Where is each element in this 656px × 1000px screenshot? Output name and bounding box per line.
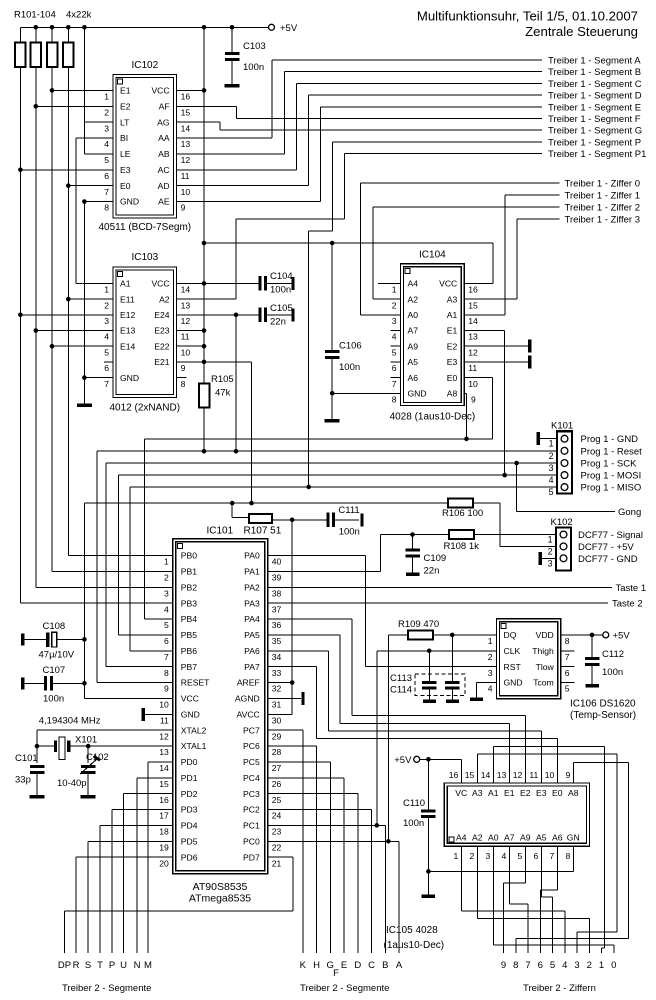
svg-text:32: 32 xyxy=(272,684,282,694)
svg-text:C105: C105 xyxy=(270,303,293,314)
svg-text:Treiber 1 - Segment A: Treiber 1 - Segment A xyxy=(548,56,641,67)
wire column R102 middle xyxy=(35,106,37,330)
svg-text:VCC: VCC xyxy=(151,279,169,289)
svg-text:VCC: VCC xyxy=(181,694,199,704)
wire IC103 pin2 E11 from column R104 xyxy=(68,298,113,300)
svg-text:Treiber 1 - Segment C: Treiber 1 - Segment C xyxy=(548,79,642,90)
svg-text:11: 11 xyxy=(529,770,538,780)
svg-text:34: 34 xyxy=(272,652,282,662)
svg-text:R106 100: R106 100 xyxy=(442,508,483,519)
dashed box C113 C114 xyxy=(415,674,465,696)
svg-text:A1: A1 xyxy=(120,279,131,289)
svg-text:AD: AD xyxy=(158,181,170,191)
svg-text:6: 6 xyxy=(104,363,109,373)
svg-text:E0: E0 xyxy=(552,788,563,798)
svg-text:C103: C103 xyxy=(243,41,266,52)
svg-text:C: C xyxy=(368,960,375,971)
svg-text:A6: A6 xyxy=(552,832,563,842)
wire PB2 from column R102 xyxy=(36,586,173,588)
svg-text:22n: 22n xyxy=(270,317,286,328)
svg-text:6: 6 xyxy=(533,851,538,861)
svg-text:PB2: PB2 xyxy=(181,582,197,592)
svg-text:AG: AG xyxy=(157,117,170,127)
svg-text:3: 3 xyxy=(485,851,490,861)
wire PA2 Taste 1 xyxy=(268,586,612,588)
wire IC102 pin16 VCC xyxy=(177,89,204,91)
svg-text:2: 2 xyxy=(392,300,397,310)
svg-text:A9: A9 xyxy=(520,832,531,842)
svg-text:25: 25 xyxy=(272,795,282,805)
capacitor C108 47u xyxy=(21,633,24,645)
wire IC105 A9 output to Ziffer 9 xyxy=(524,846,526,883)
svg-text:Zentrale Steuerung: Zentrale Steuerung xyxy=(525,24,638,39)
wire PB1 from column R103 xyxy=(52,570,173,572)
svg-text:1: 1 xyxy=(549,439,554,449)
wire IC105 A7 output to Ziffer 7 xyxy=(508,846,510,904)
svg-text:R105: R105 xyxy=(211,374,234,385)
svg-text:100n: 100n xyxy=(339,527,360,538)
svg-text:GND: GND xyxy=(120,373,139,383)
svg-text:3: 3 xyxy=(104,316,109,326)
svg-text:E2: E2 xyxy=(447,341,458,351)
svg-text:9: 9 xyxy=(471,395,476,405)
wire PA3 Taste 2 xyxy=(268,602,608,604)
wire PD4 to bus xyxy=(100,824,173,826)
svg-text:DQ: DQ xyxy=(504,630,517,640)
capacitor C114 xyxy=(451,635,453,681)
svg-text:2: 2 xyxy=(549,451,554,461)
svg-text:PA4: PA4 xyxy=(244,614,260,624)
svg-text:Prog 1 - Reset: Prog 1 - Reset xyxy=(581,446,643,457)
capacitor C111 100n xyxy=(326,513,329,528)
svg-text:6: 6 xyxy=(392,363,397,373)
svg-text:11: 11 xyxy=(181,332,190,342)
svg-text:Gong: Gong xyxy=(618,507,641,518)
svg-text:14: 14 xyxy=(181,123,191,133)
svg-text:5: 5 xyxy=(164,620,169,630)
svg-text:DCF77 - Signal: DCF77 - Signal xyxy=(578,530,643,541)
svg-text:PA1: PA1 xyxy=(244,567,260,577)
svg-text:5: 5 xyxy=(104,155,109,165)
svg-text:A8: A8 xyxy=(447,389,458,399)
svg-text:4: 4 xyxy=(549,475,554,485)
wire IC102 pin8 GND down xyxy=(84,201,113,203)
svg-text:Taste 1: Taste 1 xyxy=(616,583,647,594)
IC103 box xyxy=(113,267,177,397)
svg-text:100n: 100n xyxy=(403,818,424,829)
wire Ziffer 3 to IC104 A3 xyxy=(517,218,560,220)
svg-text:39: 39 xyxy=(272,573,282,583)
wire Ziffer 0 to IC104 A0 xyxy=(361,182,560,184)
wire IC105 A3 output to Ziffer 3 xyxy=(476,754,478,783)
svg-text:Treiber 2 - Ziffern: Treiber 2 - Ziffern xyxy=(523,983,596,994)
wire IC106 CLK from PC1 line xyxy=(377,650,497,652)
svg-text:PC0: PC0 xyxy=(243,836,260,846)
wire +5V distribution line Y503 xyxy=(84,502,448,504)
svg-text:7: 7 xyxy=(392,379,397,389)
wire bus MISO line H5 xyxy=(130,486,557,488)
+5V terminal IC105 xyxy=(414,756,420,762)
svg-text:IC106 DS1620: IC106 DS1620 xyxy=(570,699,636,710)
svg-text:K101: K101 xyxy=(551,421,573,432)
svg-text:24: 24 xyxy=(272,811,282,821)
svg-text:A0: A0 xyxy=(488,832,499,842)
svg-text:6: 6 xyxy=(104,171,109,181)
wire segment P from MISO bus xyxy=(332,141,542,143)
svg-text:40: 40 xyxy=(272,557,282,567)
svg-text:A1: A1 xyxy=(488,788,499,798)
svg-text:AGND: AGND xyxy=(235,694,260,704)
svg-text:U: U xyxy=(120,960,127,971)
svg-text:6: 6 xyxy=(565,668,570,678)
svg-text:12: 12 xyxy=(159,731,169,741)
svg-text:R: R xyxy=(73,960,80,971)
svg-text:5: 5 xyxy=(549,487,554,497)
svg-text:2: 2 xyxy=(104,300,109,310)
capacitor C101 33p xyxy=(36,746,38,763)
svg-text:14: 14 xyxy=(468,316,478,326)
svg-text:IC104: IC104 xyxy=(419,250,446,261)
wire segment C from IC102 pin11 AC xyxy=(177,169,297,171)
svg-text:C109: C109 xyxy=(424,553,447,564)
svg-text:PD0: PD0 xyxy=(181,757,198,767)
svg-text:100n: 100n xyxy=(339,362,360,373)
IC106 box xyxy=(497,619,561,699)
svg-text:4: 4 xyxy=(501,851,506,861)
wire +5V line to IC104 VCC pin16 xyxy=(204,242,493,244)
svg-text:0: 0 xyxy=(611,960,616,971)
svg-text:29: 29 xyxy=(272,731,282,741)
svg-text:PC4: PC4 xyxy=(243,773,260,783)
svg-text:DCF77 - GND: DCF77 - GND xyxy=(578,554,638,565)
K102 pin3 GND stub terminator xyxy=(542,557,556,559)
svg-text:7: 7 xyxy=(104,379,109,389)
svg-text:16: 16 xyxy=(468,285,478,295)
svg-text:R101-104: R101-104 xyxy=(14,10,56,21)
wire bus Reset line H2 xyxy=(97,450,557,452)
svg-text:3: 3 xyxy=(488,668,493,678)
wire PC5 to bus G xyxy=(268,761,331,763)
svg-text:8: 8 xyxy=(181,379,186,389)
svg-text:VC: VC xyxy=(455,788,467,798)
svg-text:E3: E3 xyxy=(120,165,131,175)
capacitor C112 100n xyxy=(591,635,593,657)
svg-text:A4: A4 xyxy=(456,832,467,842)
wire VCC column xyxy=(203,27,205,383)
svg-text:13: 13 xyxy=(468,332,478,342)
svg-text:Treiber 1 - Segment E: Treiber 1 - Segment E xyxy=(548,102,641,113)
svg-text:4,194304 MHz: 4,194304 MHz xyxy=(39,716,101,727)
wire IC103 pin4 E13 from column R102 xyxy=(36,330,113,332)
svg-text:A3: A3 xyxy=(472,788,483,798)
svg-text:A4: A4 xyxy=(408,279,419,289)
svg-text:8: 8 xyxy=(565,636,570,646)
svg-text:PB3: PB3 xyxy=(181,598,197,608)
svg-text:E3: E3 xyxy=(447,357,458,367)
wire IC105 A4 output to Ziffer 4 xyxy=(460,846,462,911)
svg-text:4: 4 xyxy=(104,139,109,149)
capacitor C105 xyxy=(258,308,261,323)
wire IC102 pin2 E2 from column R102 xyxy=(36,105,113,107)
svg-text:C114: C114 xyxy=(390,685,412,696)
svg-text:A3: A3 xyxy=(447,294,458,304)
wire IC105 A0 output to Ziffer 0 xyxy=(492,846,494,945)
svg-text:D: D xyxy=(354,960,361,971)
svg-text:1: 1 xyxy=(104,92,109,102)
wire column R101 middle xyxy=(19,170,21,315)
svg-text:6: 6 xyxy=(538,960,543,971)
svg-text:PC5: PC5 xyxy=(243,757,260,767)
svg-text:C110: C110 xyxy=(403,798,425,809)
wire IC104 pin11 E3 stub terminator xyxy=(464,361,528,363)
svg-text:13: 13 xyxy=(159,747,169,757)
svg-text:1: 1 xyxy=(453,851,458,861)
svg-text:12: 12 xyxy=(181,155,191,165)
svg-text:12: 12 xyxy=(181,316,191,326)
svg-text:11: 11 xyxy=(181,171,190,181)
svg-text:K102: K102 xyxy=(551,517,573,528)
svg-text:5: 5 xyxy=(565,684,570,694)
svg-text:PB7: PB7 xyxy=(181,662,197,672)
svg-text:Treiber 2 - Segmente: Treiber 2 - Segmente xyxy=(300,983,389,994)
wire IC103 pin12 E24 to C105 xyxy=(177,314,259,316)
svg-text:LT: LT xyxy=(120,117,130,127)
svg-text:22: 22 xyxy=(272,842,282,852)
svg-text:Treiber 1 - Ziffer 0: Treiber 1 - Ziffer 0 xyxy=(565,178,641,189)
svg-text:3: 3 xyxy=(548,558,553,568)
svg-text:K: K xyxy=(300,960,307,971)
wire bus SCK line H3 xyxy=(106,462,557,464)
svg-text:AF: AF xyxy=(159,101,170,111)
svg-text:9: 9 xyxy=(181,203,186,213)
wire PA7 to IC105 E0 xyxy=(268,666,317,668)
svg-text:IC102: IC102 xyxy=(131,60,158,71)
wire IC103 pin13 A2 output xyxy=(177,298,236,300)
svg-text:4: 4 xyxy=(488,684,493,694)
svg-text:2: 2 xyxy=(164,573,169,583)
svg-text:E: E xyxy=(341,960,347,971)
svg-text:E24: E24 xyxy=(154,310,170,320)
svg-text:GND: GND xyxy=(408,389,427,399)
svg-text:A: A xyxy=(396,960,403,971)
wire IC103 pin14 VCC to C104 xyxy=(177,282,259,284)
svg-text:P: P xyxy=(109,960,115,971)
wire IC104 pin12 E2 stub terminator xyxy=(464,345,528,347)
wire IC105 A2 output to Ziffer 2 xyxy=(476,846,478,918)
svg-text:IC103: IC103 xyxy=(131,252,158,263)
capacitor C104 xyxy=(258,276,261,291)
wire Ziffer 2 to IC104 A2 xyxy=(373,206,560,208)
svg-text:(Temp-Sensor): (Temp-Sensor) xyxy=(570,710,636,721)
svg-text:AC: AC xyxy=(158,165,170,175)
svg-text:12: 12 xyxy=(468,347,478,357)
svg-text:A7: A7 xyxy=(504,832,515,842)
svg-text:2: 2 xyxy=(469,851,474,861)
wire IC103 pin9 E21 to +5V line xyxy=(177,361,252,363)
wire IC105 A5 output to Ziffer 5 xyxy=(540,846,542,897)
svg-text:E1: E1 xyxy=(447,326,458,336)
wire IC106 pin5 stub xyxy=(561,682,575,684)
svg-text:10: 10 xyxy=(181,187,191,197)
svg-text:E12: E12 xyxy=(120,310,136,320)
resistor R109 470 xyxy=(433,634,497,636)
wire segment D from IC102 pin10 AD xyxy=(177,185,309,187)
capacitor C110 100n xyxy=(427,759,429,809)
svg-text:E1: E1 xyxy=(120,86,131,96)
wire PD2 to bus xyxy=(124,793,173,795)
svg-text:100n: 100n xyxy=(270,285,291,296)
svg-text:100n: 100n xyxy=(43,694,64,705)
wire IC103 pin7 GND xyxy=(84,377,113,379)
svg-text:6: 6 xyxy=(164,636,169,646)
svg-text:4: 4 xyxy=(392,332,397,342)
svg-text:AE: AE xyxy=(158,197,170,207)
svg-text:T: T xyxy=(97,960,103,971)
svg-text:3: 3 xyxy=(574,960,579,971)
svg-text:4012 (2xNAND): 4012 (2xNAND) xyxy=(110,403,181,414)
svg-text:C111: C111 xyxy=(338,505,359,516)
svg-text:PD7: PD7 xyxy=(243,852,260,862)
svg-text:LE: LE xyxy=(120,149,131,159)
capacitor C102 trimmer 10-40p xyxy=(87,746,89,763)
svg-text:Treiber 1 - Ziffer 1: Treiber 1 - Ziffer 1 xyxy=(565,191,641,202)
wire PA6 to IC105 E3 xyxy=(268,650,329,652)
svg-text:C102: C102 xyxy=(86,752,109,763)
svg-text:1: 1 xyxy=(104,285,109,295)
svg-text:A5: A5 xyxy=(408,357,419,367)
wire IC102 pin3 LT xyxy=(84,121,113,123)
resistor R108 1k xyxy=(474,534,556,536)
svg-text:8: 8 xyxy=(104,203,109,213)
svg-text:PA6: PA6 xyxy=(244,646,260,656)
IC102 box xyxy=(113,75,177,219)
svg-text:E0: E0 xyxy=(447,373,458,383)
wire IC104 pin8 GND xyxy=(332,392,400,394)
svg-text:9: 9 xyxy=(501,960,506,971)
svg-text:A9: A9 xyxy=(408,341,419,351)
+5V terminal top xyxy=(269,24,275,30)
svg-text:5: 5 xyxy=(517,851,522,861)
svg-text:33: 33 xyxy=(272,668,282,678)
svg-text:Treiber 1 - Ziffer 3: Treiber 1 - Ziffer 3 xyxy=(565,215,641,226)
capacitor C113 xyxy=(428,651,430,681)
svg-text:+5V: +5V xyxy=(613,630,631,641)
wire PD0 to bus xyxy=(148,761,173,763)
svg-text:A0: A0 xyxy=(408,310,419,320)
svg-text:A7: A7 xyxy=(408,326,419,336)
svg-text:A1: A1 xyxy=(447,310,458,320)
wire E24 column to reset line xyxy=(235,315,237,451)
wire segment F from IC102 pin15 AF xyxy=(177,105,237,107)
svg-text:2: 2 xyxy=(548,546,553,556)
svg-text:35: 35 xyxy=(272,636,282,646)
svg-text:VDD: VDD xyxy=(536,630,554,640)
wire PC7 to bus K xyxy=(268,729,303,731)
svg-text:37: 37 xyxy=(272,604,282,614)
svg-text:X101: X101 xyxy=(75,735,97,746)
svg-text:E11: E11 xyxy=(120,294,135,304)
svg-text:1: 1 xyxy=(164,557,169,567)
wire Gong from SCK xyxy=(516,463,518,511)
svg-text:30: 30 xyxy=(272,715,282,725)
svg-text:Treiber 1 - Segment G: Treiber 1 - Segment G xyxy=(548,126,642,137)
svg-text:PA2: PA2 xyxy=(244,582,260,592)
wire PB0 from column R104 xyxy=(68,555,172,557)
svg-text:A8: A8 xyxy=(568,788,579,798)
svg-text:A2: A2 xyxy=(159,294,170,304)
svg-text:C108: C108 xyxy=(43,621,66,632)
wire IC103 pin6 stub xyxy=(104,361,113,363)
wire PA5 to IC105 E1 xyxy=(268,634,340,636)
svg-text:8: 8 xyxy=(565,851,570,861)
resistor R107 51 xyxy=(231,503,233,517)
wire IC106 pin7 stub xyxy=(561,650,575,652)
wire PA1 to R108 net xyxy=(268,570,381,572)
svg-text:15: 15 xyxy=(181,107,191,117)
K101 pin1 stub terminator xyxy=(540,438,558,440)
ground symbol IC103/IC102 xyxy=(77,403,92,407)
svg-text:4: 4 xyxy=(164,604,169,614)
wire PC4 to bus E xyxy=(268,777,344,779)
svg-text:C101: C101 xyxy=(15,753,38,764)
svg-text:7: 7 xyxy=(104,187,109,197)
svg-text:PB6: PB6 xyxy=(181,646,197,656)
svg-text:E13: E13 xyxy=(120,326,136,336)
svg-text:8: 8 xyxy=(164,668,169,678)
svg-text:RST: RST xyxy=(504,662,522,672)
wire IC104 pin13 E1 to MOSI line xyxy=(464,330,504,332)
svg-text:XTAL1: XTAL1 xyxy=(181,741,207,751)
svg-text:E1: E1 xyxy=(504,788,515,798)
wire PC3 to bus D xyxy=(268,793,358,795)
wire segment E from IC102 pin9 AE xyxy=(177,201,321,203)
svg-text:Treiber 1 - Segment P1: Treiber 1 - Segment P1 xyxy=(548,149,646,160)
wire IC103 pin8 stub xyxy=(177,377,187,379)
wire column R104 middle xyxy=(67,186,69,299)
svg-text:AA: AA xyxy=(158,133,170,143)
svg-text:PC2: PC2 xyxy=(243,805,260,815)
svg-text:PD4: PD4 xyxy=(181,821,198,831)
wire Ziffer 1 to IC104 A1 xyxy=(505,194,560,196)
wire PB3 from column R101 xyxy=(20,602,172,604)
wire PD1 to bus xyxy=(137,777,173,779)
wire IC103 pin3 E12 from column R101 xyxy=(20,314,113,316)
wire IC106 VDD pin8 +5V xyxy=(561,634,603,636)
svg-text:5: 5 xyxy=(550,960,555,971)
svg-text:Treiber 1 - Segment B: Treiber 1 - Segment B xyxy=(548,67,641,78)
svg-text:PB1: PB1 xyxy=(181,567,197,577)
svg-text:Prog 1 - GND: Prog 1 - GND xyxy=(581,434,639,445)
svg-text:11: 11 xyxy=(160,715,169,725)
IC101 box xyxy=(173,539,268,874)
svg-text:B: B xyxy=(382,960,388,971)
svg-text:Taste 2: Taste 2 xyxy=(612,599,643,610)
wire AGND stub terminator xyxy=(268,697,301,699)
svg-text:3: 3 xyxy=(392,316,397,326)
svg-text:PB5: PB5 xyxy=(181,630,197,640)
svg-text:16: 16 xyxy=(449,770,459,780)
wire IC103 pin10 E22 to VCC xyxy=(177,345,204,347)
svg-text:DCF77 - +5V: DCF77 - +5V xyxy=(578,542,634,553)
svg-text:DP: DP xyxy=(58,960,71,971)
wire PC2 to bus C xyxy=(268,809,372,811)
svg-text:CLK: CLK xyxy=(504,646,521,656)
svg-text:VCC: VCC xyxy=(439,279,457,289)
capacitor C103 xyxy=(231,27,233,52)
svg-text:PD5: PD5 xyxy=(181,836,198,846)
wire IC104 pin5 stub xyxy=(391,345,401,347)
svg-text:100n: 100n xyxy=(602,667,623,678)
